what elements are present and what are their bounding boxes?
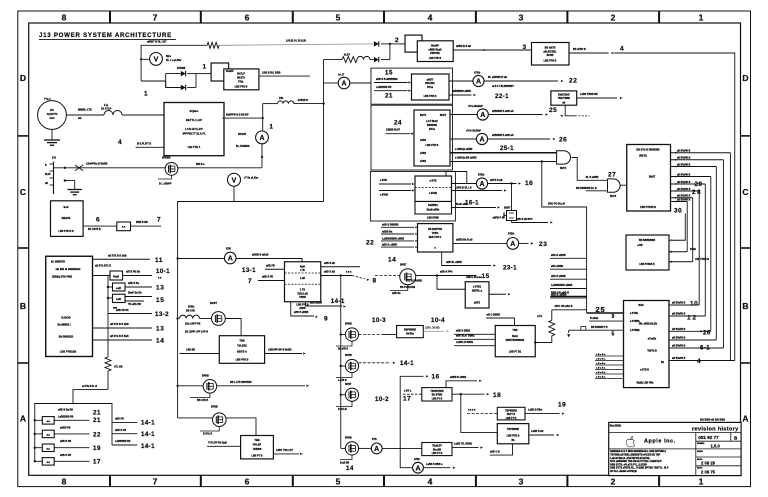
svg-text:aB BTaPB B: aB BTaPB B: [672, 338, 686, 340]
wire R1 to diode D1: [219, 40, 374, 46]
svg-text:LTB: LTB: [300, 269, 305, 272]
svg-text:TBB: TBB: [239, 338, 244, 342]
module frame 21: [371, 68, 453, 104]
connector box module 1: [211, 63, 229, 81]
svg-text:aB BTaPB B: aB BTaPB B: [677, 164, 691, 166]
U18 output nets: [671, 151, 731, 203]
svg-text:4: 4: [428, 13, 433, 23]
svg-text:BETTLI LAP: BETTLI LAP: [186, 118, 202, 122]
svg-text:1 TB: 1 TB: [300, 289, 305, 292]
wire diode join: [381, 43, 391, 60]
svg-text:B BTa B: B BTa B: [203, 433, 212, 436]
svg-text:aB BTaPB B: aB BTaPB B: [677, 189, 691, 191]
svg-text:BPBT: BPBT: [345, 383, 352, 386]
net 16 wire: [400, 374, 440, 381]
svg-text:Ba aTB B: Ba aTB B: [338, 349, 349, 351]
svg-text:TRBBB: TRBBB: [253, 448, 262, 451]
svg-text:TbBTb B: TbBTb B: [647, 350, 657, 352]
net 16 out: [488, 179, 534, 187]
svg-text:BB BBBBBBB: BB BBBBBBB: [639, 239, 655, 242]
net 14 wire: [93, 335, 165, 344]
bus vertical v1: [686, 202, 688, 252]
net 10-3 label: [372, 317, 386, 324]
svg-text:a BT a: a BT a: [404, 389, 412, 392]
svg-text:ATL BB: ATL BB: [114, 365, 123, 368]
net 6-1 label: [700, 344, 710, 351]
svg-text:Bba BBBb: Bba BBBb: [610, 425, 622, 427]
wire A2 down to main rail: [261, 144, 264, 168]
svg-text:LaBB TBBB BB: LaBB TBBB BB: [580, 93, 598, 96]
svg-text:aBB B PB: aBB B PB: [115, 429, 126, 432]
svg-text:15: 15: [482, 273, 490, 280]
svg-text:TbBLLaB: TbBLLaB: [297, 293, 308, 296]
svg-text:13-2: 13-2: [155, 311, 169, 318]
svg-text:LIB PTB 1: LIB PTB 1: [188, 145, 201, 149]
border column numbers bottom: [62, 476, 704, 486]
system control U18: [627, 145, 671, 212]
svg-text:BbBT.BbB: BbBT.BbB: [558, 94, 570, 96]
ammeter A8: [450, 104, 488, 120]
net 10-1 label: [123, 268, 171, 280]
net up out of U10: [446, 376, 482, 388]
bus vertical v8: [729, 153, 731, 361]
wire V2 stub: [233, 186, 235, 201]
svg-text:BbB: BbB: [300, 265, 305, 268]
svg-text:051 92 77: 051 92 77: [698, 435, 719, 440]
regulator U4: [219, 336, 264, 364]
svg-text:aBB B aB: aBB B aB: [324, 271, 335, 274]
svg-text:a BTaB: a BTaB: [429, 192, 437, 195]
net 7 into U6: [248, 276, 285, 285]
svg-text:aBB B aB BPP: aBB B aB BPP: [516, 218, 533, 221]
pulldown arrow: [567, 330, 570, 337]
svg-text:BB aPBP B: BB aPBP B: [573, 48, 586, 51]
svg-text:BB ATB B: BB ATB B: [197, 399, 208, 402]
svg-text:aB: aB: [562, 102, 565, 104]
inductor L2: [357, 56, 370, 59]
net 18 wire: [452, 392, 501, 399]
svg-text:LaBB B BBB a: LaBB B BBB a: [426, 463, 443, 466]
svg-text:TPBO: TPBO: [432, 232, 439, 235]
svg-text:BB BBB-aB BB BBB: BB BBB-aB BB BBB: [700, 418, 725, 422]
gas gauge U6: [285, 262, 321, 310]
net 15 wire: [416, 271, 490, 280]
svg-text:TbLBB1: TbLBB1: [237, 344, 247, 347]
vertical bus vin: [323, 60, 325, 202]
and gate U17: [608, 179, 621, 198]
svg-text:JPPPBLTT BLh PL: JPPPBLTT BLh PL: [182, 132, 206, 136]
svg-text:aBB B PB: aBB B PB: [60, 440, 71, 443]
svg-text:21: 21: [385, 92, 393, 99]
stub below 22-1 box: [560, 105, 590, 117]
svg-text:B: B: [742, 301, 748, 311]
charger detect U2: [51, 201, 84, 237]
loop return wire: [178, 202, 324, 418]
svg-text:aB BTaPB B: aB BTaPB B: [672, 346, 686, 348]
svg-text:V: V: [154, 57, 159, 64]
wire vbus top riser: [140, 45, 142, 81]
net out U24: [577, 93, 623, 99]
net 23-1 out: [442, 252, 517, 271]
svg-text:BP BLL aBaBb aPPBQB: BP BLL aBaBb aPPBQB: [610, 471, 637, 473]
wire into U4: [180, 349, 220, 354]
mosfet Q8 row: [336, 383, 359, 411]
mosfet Q6 row: [336, 323, 383, 351]
net label into mux: [486, 313, 515, 325]
net out U8 gray: [423, 326, 449, 332]
svg-text:3al: 3al: [78, 117, 82, 120]
svg-text:PTaL: PTaL: [238, 81, 244, 84]
svg-text:aBTB B aB: aBTB B aB: [490, 179, 503, 182]
svg-text:BB PO BLBM: BB PO BLBM: [400, 286, 415, 289]
svg-text:BbTBa: BbTBa: [406, 332, 414, 335]
svg-text:11: 11: [155, 257, 163, 264]
svg-text:BB BTb B BBBBBB: BB BTb B BBBBBB: [636, 149, 659, 152]
svg-text:1B STLP: 1B STLP: [101, 107, 112, 110]
border row letters left: [20, 73, 26, 424]
svg-text:TBB: TBB: [512, 329, 517, 332]
svg-text:aB BTaPB B: aB BTaPB B: [677, 196, 691, 198]
svg-text:17: 17: [403, 395, 411, 402]
lcd boost U12: [497, 424, 529, 444]
monitor U22: [415, 176, 452, 202]
svg-text:DC: DC: [50, 108, 54, 112]
net 15 into module: [374, 69, 411, 83]
svg-text:aBB B BBBBB: aBB B BBBBB: [382, 224, 399, 227]
svg-text:LaBBBBB PB: LaBBBBB PB: [376, 86, 392, 89]
net 22 wire: [484, 76, 577, 88]
SMC U3: [46, 256, 93, 356]
U21 pin1 wire: [587, 313, 624, 320]
svg-text:a B a B a: a B a B a: [596, 377, 606, 379]
monitor U23: [418, 224, 453, 252]
svg-text:a BTBb: a BTBb: [630, 313, 639, 315]
net 10-2 label: [375, 396, 389, 403]
svg-text:LBaPPBa B BbBB: LBaPPBa B BbBB: [86, 163, 108, 166]
svg-text:BL aBBBB B aB: BL aBBBB B aB: [488, 76, 507, 79]
U19box input b: [669, 259, 709, 263]
svg-text:10-1: 10-1: [156, 268, 170, 275]
net 13-1 into U6: [242, 264, 285, 274]
svg-text:aBBBBB B aBB aB: aBBBBB B aBB aB: [492, 134, 514, 137]
svg-text:aBB BLaT BBB1: aBB BLaT BBB1: [456, 334, 475, 337]
voltmeter V2: [228, 173, 259, 186]
wire riser to inductor: [263, 104, 278, 119]
wire R3 to pulldown bracket: [73, 385, 108, 404]
monitor U22b: [415, 202, 452, 220]
voltmeter V1: [141, 53, 181, 66]
svg-text:BTB: BTB: [372, 439, 377, 441]
svg-text:aBb B aBBB: aBb B aBBB: [551, 254, 566, 257]
svg-text:6: 6: [245, 13, 250, 23]
svg-text:PBL: PBL: [279, 97, 284, 100]
svg-text:TBbTPBBB: TBbTPBBB: [558, 98, 571, 100]
wire Q5 into comparator: [400, 276, 465, 290]
svg-text:a BTB B: a BTB B: [640, 369, 649, 371]
wire R4 to bus: [552, 305, 587, 310]
svg-text:Bjra: Bjra: [166, 55, 171, 58]
node 2 label: [395, 37, 399, 44]
svg-text:14-1: 14-1: [331, 298, 345, 305]
svg-text:(BB B): (BB B): [639, 154, 647, 157]
ammeter A9: [450, 129, 488, 145]
svg-text:LBB PT B: LBB PT B: [251, 454, 262, 457]
box 23 input nets: [381, 224, 418, 248]
svg-text:aTBB: aTBB: [420, 140, 426, 142]
svg-text:aBBB: aBBB: [299, 308, 306, 310]
net 14 chain label: [346, 465, 354, 472]
svg-text:aB BTaPB B: aB BTaPB B: [672, 358, 686, 360]
U21 output nets: [669, 303, 735, 361]
bus vertical v3: [698, 191, 700, 305]
svg-text:a a a a: a a a a: [468, 409, 476, 412]
connector box module 2: [405, 35, 422, 52]
svg-text:MMBIL-LTB: MMBIL-LTB: [78, 109, 92, 112]
net 13 wire b: [93, 323, 165, 332]
svg-text:BbBT: BbBT: [504, 207, 511, 210]
ammeter A3: [176, 247, 236, 263]
svg-text:BhaBP: BhaBP: [431, 45, 439, 48]
svg-text:10-3: 10-3: [372, 317, 386, 324]
svg-text:aBB B BBB1: aBB B BBB1: [456, 329, 471, 332]
svg-text:BhTLP: BhTLP: [237, 73, 245, 76]
svg-text:aB BTb B B BaB: aB BTb B B BaB: [110, 323, 129, 326]
svg-text:B L aTMPP: B L aTMPP: [159, 183, 172, 186]
wire top net: [141, 41, 207, 46]
svg-text:BIB B a: BIB B a: [196, 163, 205, 166]
relay driver U9: [422, 443, 452, 456]
battery cell connector P4: [34, 458, 90, 466]
net 17 label: [60, 454, 101, 466]
svg-text:4: 4: [620, 45, 624, 52]
svg-text:Bb BTBB: Bb BTBB: [432, 394, 443, 397]
svg-text:aMBIT B BL LBT: aMBIT B BL LBT: [147, 41, 167, 44]
svg-text:BQabc: BQabc: [190, 109, 199, 113]
svg-text:at BTa B B -B: at BTa B B -B: [82, 385, 97, 388]
svg-text:a BTBBb: a BTBBb: [630, 330, 640, 332]
svg-text:15: 15: [156, 297, 164, 304]
svg-text:LBB PTB B: LBB PTB B: [429, 58, 442, 60]
wire node to A1: [324, 74, 345, 83]
svg-text:BL BBBBTB: BL BBBBTB: [51, 260, 65, 263]
svg-text:aB BTb BT1 B: aB BTb BT1 B: [95, 264, 111, 267]
svg-text:LaBB B BBa: LaBB B BBa: [528, 409, 543, 412]
svg-text:16: 16: [525, 180, 533, 187]
svg-text:LBB PTB B: LBB PTB B: [507, 434, 520, 437]
svg-text:aTBB: aTBB: [420, 153, 426, 155]
switch S1: [75, 163, 108, 171]
svg-text:1.5.0: 1.5.0: [711, 444, 721, 449]
svg-text:BbPT B: BbPT B: [507, 414, 516, 416]
node 1 label charger branch: [269, 124, 273, 131]
IC box module 1: [224, 69, 259, 90]
net 25 label big: [596, 305, 606, 314]
bus vertical v2: [692, 198, 694, 262]
net 19 label: [60, 440, 101, 452]
svg-text:19: 19: [558, 401, 566, 408]
svg-text:a B a B a: a B a B a: [596, 372, 606, 374]
monitor U14: [414, 110, 450, 166]
svg-text:BbB PTB b: BbB PTB b: [429, 236, 442, 239]
svg-text:Ba MMEB (: Ba MMEB (: [57, 323, 70, 326]
svg-text:-aB O BBBB: -aB O BBBB: [486, 313, 500, 316]
svg-text:aB: aB: [45, 183, 48, 185]
svg-text:aB BB B BBBBBB: aB BB B BBBBBB: [56, 267, 81, 271]
net 24 into module: [386, 119, 415, 134]
svg-text:LBPL OB BB: LBPL OB BB: [425, 326, 440, 329]
battery cell connector P1: [34, 417, 90, 425]
svg-text:BPBB: BPBB: [345, 354, 352, 357]
svg-text:aB BTaPB B: aB BTaPB B: [677, 174, 691, 176]
svg-text:LBB PT B: LBB PT B: [432, 398, 443, 400]
svg-text:A: A: [479, 137, 484, 144]
svg-text:Apple Inc.: Apple Inc.: [644, 439, 676, 445]
svg-text:18: 18: [493, 392, 501, 399]
svg-text:LaB-BTBBLB. aP.BTBPTB-BT.BTBb.: LaB-BTBBLB. aP.BTBPTB-BT.BTBb.: [610, 458, 650, 460]
svg-text:BTBb: BTBb: [508, 233, 515, 236]
svg-text:A: A: [228, 256, 233, 263]
connector box 10-1: [110, 271, 123, 280]
wire U10 to U12: [461, 394, 498, 432]
power good U19box: [626, 235, 669, 270]
svg-text:BB. aBBB.Bb.Bb: BB. aBBB.Bb.Bb: [639, 323, 658, 325]
svg-text:a B a B a: a B a B a: [596, 354, 606, 356]
net 21 labels: [58, 408, 101, 423]
svg-text:A: A: [480, 112, 485, 119]
net 15 wires: [125, 292, 164, 307]
svg-text:aBB B Ba BB: aBB B Ba BB: [58, 408, 73, 411]
svg-text:9: 9: [324, 315, 328, 322]
svg-text:D: D: [742, 73, 748, 83]
svg-text:a BTB: a BTB: [380, 179, 387, 182]
svg-text:3: 3: [519, 13, 524, 23]
svg-text:TBPBBBB: TBPBBBB: [507, 428, 519, 431]
svg-text:Bb.aBB: Bb.aBB: [433, 449, 442, 451]
net 13-2 wire: [108, 306, 169, 317]
net 7 wire: [131, 216, 162, 226]
svg-text:BPBB: BPBB: [345, 437, 352, 440]
bus thick stub: [550, 292, 586, 297]
svg-text:aB BTaPB B: aB BTaPB B: [677, 158, 691, 160]
net label 4 into charger: [118, 139, 164, 148]
svg-text:BPBB: BPBB: [345, 323, 352, 326]
svg-text:13: 13: [156, 326, 164, 333]
net 23 out: [519, 241, 548, 248]
svg-text:A: A: [415, 465, 420, 472]
net out A5: [424, 463, 456, 469]
svg-text:F-IL: F-IL: [104, 104, 109, 107]
node 1 label left: [144, 90, 148, 97]
title J13 POWER SYSTEM ARCHITECTURE: [39, 32, 176, 39]
ammeter A1: [338, 77, 350, 89]
svg-text:22-1: 22-1: [495, 93, 509, 100]
diode D2: [181, 85, 186, 90]
svg-text:BbaB aBBb: BbaB aBBb: [427, 209, 440, 211]
svg-text:TBPBTBBB: TBPBTBBB: [430, 390, 443, 393]
svg-text:a BTaB: a BTaB: [380, 193, 388, 196]
svg-text:14: 14: [346, 465, 354, 472]
wire adapter to charger: [66, 109, 104, 120]
svg-text:27: 27: [608, 171, 616, 178]
svg-text:BLaP aBB: BLaP aBB: [456, 203, 468, 206]
svg-text:Ba1b: Ba1b: [512, 335, 518, 338]
svg-text:TUTLPP PB BpB: TUTLPP PB BpB: [208, 441, 227, 444]
net 4 label b: [697, 358, 701, 365]
net 10 label: [690, 300, 698, 307]
net 22 label: [60, 426, 101, 438]
svg-text:J13 POWER SYSTEM ARCHITECTURE: J13 POWER SYSTEM ARCHITECTURE: [39, 32, 172, 39]
svg-text:Bb/BT: Bb/BT: [210, 302, 218, 305]
svg-text:B-B: B-B: [64, 205, 69, 209]
net 13 wire a: [125, 282, 164, 291]
svg-text:V: V: [232, 177, 237, 184]
svg-text:4: 4: [428, 476, 433, 486]
net 19 out: [525, 401, 566, 414]
svg-text:B.BOB: B.BOB: [61, 315, 70, 319]
battery charger U1: [164, 103, 224, 156]
svg-text:BbaF Ba Bb: BbaF Ba Bb: [128, 292, 142, 295]
and2 output: [620, 184, 627, 186]
svg-text:BPBB: BPBB: [202, 375, 209, 378]
svg-text:Bb(B) LBB PBb: Bb(B) LBB PBb: [637, 382, 654, 384]
net out U12: [529, 430, 560, 436]
svg-text:a BTB: a BTB: [430, 180, 437, 183]
svg-text:26: 26: [703, 330, 711, 337]
svg-text:BBB BTTB. aPLaTB.PTL.LLBTBP: BBB BTTB. aPLaTB.PTL.LLBTBP: [610, 464, 647, 466]
svg-text:PhaBP: PhaBP: [226, 71, 234, 73]
ammeter A4: [359, 439, 383, 454]
svg-text:9: 9: [612, 314, 615, 320]
mux input stubs: [454, 329, 495, 345]
svg-text:aBB B aBBB: aBB B aBBB: [294, 311, 309, 314]
svg-text:25: 25: [549, 107, 557, 114]
svg-text:8: 8: [373, 277, 377, 284]
svg-text:aB BTaPB B: aB BTaPB B: [672, 303, 686, 305]
svg-text:aBTB: aBTB: [474, 301, 481, 304]
note above title block: [700, 418, 725, 422]
svg-text:BL/B: BL/B: [45, 174, 51, 176]
svg-text:aBB B Ba: aBB B Ba: [128, 282, 140, 285]
wire into module 2: [390, 43, 405, 45]
ammeter A2 on charger branch: [236, 118, 268, 148]
svg-text:LBB PT B: LBB PT B: [506, 418, 517, 420]
svg-text:ATBb: ATBb: [474, 72, 481, 75]
svg-text:BbTB: BbTB: [420, 115, 426, 117]
svg-text:Tib aBb BB: Tib aBb BB: [128, 303, 141, 306]
svg-text:aTbaBb: aTbaBb: [648, 338, 657, 340]
net 30 wire: [669, 207, 685, 241]
ground battery branch: [64, 179, 82, 194]
vertical connector feed: [107, 276, 113, 341]
svg-text:22: 22: [93, 432, 101, 439]
svg-text:LBPB B BL LB: LBPB B BL LB: [455, 186, 472, 189]
and2 input b: [576, 187, 608, 191]
svg-text:BP LBTB B: BP LBTB B: [88, 228, 101, 231]
svg-text:BB aBTB: BB aBTB: [545, 46, 556, 49]
border row letters right: [742, 73, 748, 424]
mosfet Q3: [176, 375, 216, 403]
node 1 label diode out: [203, 64, 207, 71]
svg-text:TBBB: TBBB: [299, 296, 306, 299]
bus vertical v7: [722, 160, 724, 348]
svg-text:LaBBBBBB aBBB: LaBBBBBB aBBB: [551, 284, 572, 287]
svg-text:BTB: BTB: [226, 247, 231, 250]
wire below U12: [490, 444, 513, 455]
svg-text:PBBTBb: PBBTBb: [430, 52, 440, 55]
svg-text:aBTB PB Bb: aBTB PB Bb: [126, 271, 141, 274]
svg-text:d-7b: d-7b: [537, 315, 543, 318]
svg-text:10-2: 10-2: [375, 396, 389, 403]
